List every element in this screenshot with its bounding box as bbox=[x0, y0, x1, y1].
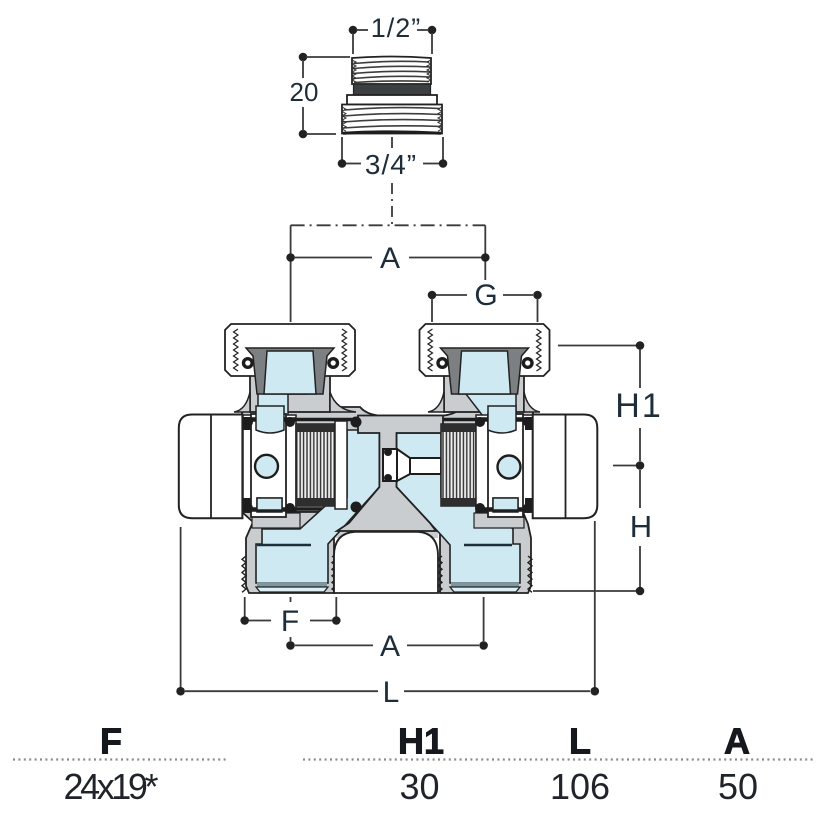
left water channel: pocket + diagonal + step + pool bbox=[256, 430, 379, 583]
right water channel: pocket + diagonal + step + pool bbox=[397, 433, 521, 583]
svg-text:30: 30 bbox=[399, 766, 439, 807]
dimension H1 bbox=[558, 341, 663, 470]
svg-text:3/4”: 3/4” bbox=[365, 149, 417, 180]
svg-text:50: 50 bbox=[718, 766, 758, 807]
left cartridge bbox=[243, 406, 362, 517]
left leg bbox=[242, 512, 334, 593]
dotted rule right bbox=[303, 758, 815, 760]
svg-text:F: F bbox=[100, 721, 122, 762]
dimension 20 left bbox=[290, 53, 350, 139]
right column body bbox=[428, 374, 540, 420]
adapter upper threaded cylinder (1/2") bbox=[352, 57, 431, 85]
right leg bbox=[440, 512, 531, 593]
centerline dash-dot from adapter down bbox=[391, 183, 393, 225]
right cartridge stem bbox=[383, 448, 441, 482]
right leg upper gray block bbox=[474, 513, 524, 528]
gray surround of arch bbox=[334, 512, 438, 538]
dimension L bbox=[176, 521, 599, 709]
svg-text:F: F bbox=[281, 605, 299, 638]
dimension A bottom bbox=[286, 597, 488, 663]
dimension 1/2" top bbox=[349, 13, 437, 54]
svg-text:H1: H1 bbox=[615, 387, 662, 425]
bore crest lines bbox=[245, 418, 380, 421]
left nut bbox=[225, 324, 355, 394]
dimension 3/4" bottom of adapter bbox=[338, 137, 448, 180]
svg-text:20: 20 bbox=[290, 77, 319, 107]
dimension F bbox=[240, 597, 340, 638]
left leg upper gray block bbox=[252, 513, 300, 528]
svg-text:24x19*: 24x19* bbox=[64, 766, 159, 807]
center web and bridge bbox=[337, 416, 443, 532]
dimension H bbox=[533, 470, 652, 595]
svg-text:G: G bbox=[474, 279, 497, 312]
adapter hex flange bbox=[347, 95, 437, 105]
left column body bbox=[234, 374, 356, 420]
svg-text:A: A bbox=[380, 630, 400, 663]
svg-text:L: L bbox=[383, 676, 400, 709]
right cartridge bbox=[441, 406, 533, 517]
svg-text:H: H bbox=[630, 509, 652, 544]
adapter lower threaded cylinder (3/4") bbox=[342, 105, 442, 134]
bore crest overlay bands bbox=[243, 420, 533, 511]
left cartridge thread bbox=[296, 424, 335, 506]
svg-text:A: A bbox=[724, 721, 750, 762]
male thread zigzag right leg bbox=[438, 556, 442, 592]
svg-text:106: 106 bbox=[550, 766, 610, 807]
svg-text:A: A bbox=[380, 242, 400, 275]
svg-text:1/2”: 1/2” bbox=[371, 13, 422, 43]
dimension A top bracket bbox=[286, 225, 489, 322]
svg-text:L: L bbox=[569, 721, 591, 762]
svg-text:H1: H1 bbox=[398, 721, 444, 762]
male thread zigzag left leg bbox=[242, 556, 246, 592]
adapter hex dark band bbox=[354, 84, 431, 95]
barrel gray body bbox=[242, 407, 533, 513]
dotted rule left bbox=[13, 758, 227, 760]
pools bottom shading bbox=[257, 583, 327, 587]
right nut bbox=[420, 324, 550, 394]
arch opening bbox=[334, 532, 438, 593]
left cap bbox=[179, 415, 243, 519]
right cap bbox=[533, 415, 598, 519]
dimension G bbox=[428, 279, 542, 322]
